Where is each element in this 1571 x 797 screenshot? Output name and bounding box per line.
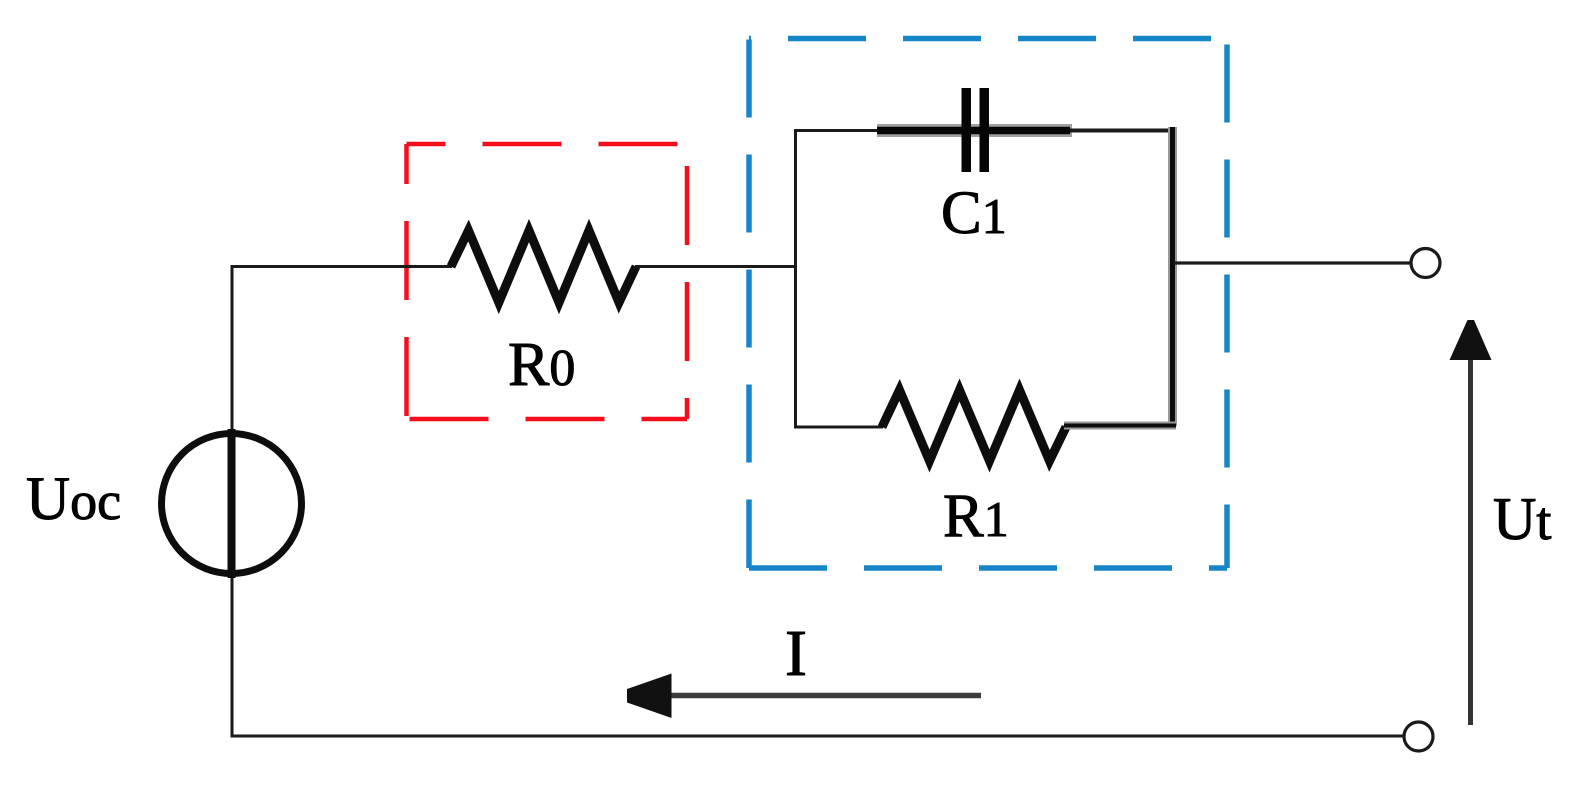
top output terminal (1411, 249, 1440, 278)
current arrow I (627, 674, 981, 719)
parallel block top wire to capacitor (794, 129, 882, 132)
wire: capacitor right lead to block right vertical (1070, 129, 1175, 133)
wire: left vertical from top wire through source to bottom wire (231, 265, 234, 736)
wire: bottom horizontal (231, 735, 1404, 738)
wire: R1 right lead (doubled gray) to right vertical (1064, 422, 1176, 430)
svg-text:R1: R1 (943, 483, 1009, 550)
voltage arrow Ut (1450, 320, 1492, 725)
blue dashed box around R1 C1 pair (749, 39, 1227, 569)
svg-text:I: I (785, 617, 807, 690)
resistor R0 zigzag (451, 231, 636, 303)
parallel block right vertical wire (thick doubled) (1168, 127, 1177, 426)
svg-text:Ut: Ut (1493, 486, 1551, 552)
parallel block bottom wire to R1 (794, 426, 883, 429)
resistor R1 zigzag (882, 390, 1066, 461)
capacitor C1 : thick leads and plates (877, 88, 1072, 172)
wire: top horizontal from left corner to R0 (231, 265, 453, 268)
svg-text:R0: R0 (508, 331, 575, 399)
svg-text:Uoc: Uoc (26, 466, 121, 533)
svg-text:C1: C1 (941, 180, 1007, 247)
wire: R0 to parallel block left vertical (635, 265, 797, 268)
voltage source Uoc : circle with vertical bar (162, 429, 302, 578)
wire: block right vertical to top terminal (1173, 261, 1410, 264)
parallel block left vertical wire (794, 129, 797, 429)
bottom output terminal (1404, 722, 1433, 751)
red dashed box around R0 (407, 144, 688, 419)
